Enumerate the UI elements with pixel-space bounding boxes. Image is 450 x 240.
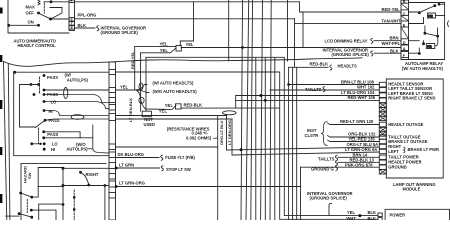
svg-text:RED-LT GRN 130: RED-LT GRN 130	[340, 119, 374, 124]
svg-text:BLK: BLK	[390, 48, 399, 53]
auto dimmer box	[8, 0, 69, 33]
svg-text:GROUND G: GROUND G	[311, 166, 334, 171]
svg-text:WHT 102: WHT 102	[357, 85, 375, 90]
bundle verticals bottom	[255, 58, 257, 220]
svg-text:YEL: YEL	[186, 42, 195, 47]
svg-text:BLK: BLK	[368, 216, 377, 220]
module pins	[379, 82, 386, 174]
wavy page boundary	[4, 58, 363, 67]
svg-text:PNK-ORG 676: PNK-ORG 676	[345, 162, 373, 167]
INST CLSTR brace	[321, 122, 327, 146]
svg-text:WHT: WHT	[346, 216, 356, 220]
svg-text:YEL: YEL	[347, 210, 356, 215]
svg-text:(W/O AUTO HEADLTS): (W/O AUTO HEADLTS)	[153, 89, 198, 94]
brace marks for fuse/stop	[404, 147, 406, 153]
svg-text:FR: FR	[427, 45, 432, 49]
svg-text:8: 8	[71, 26, 73, 30]
RED-BLK resistance wire row	[181, 107, 280, 109]
svg-text:LT GRN: LT GRN	[119, 163, 134, 168]
svg-text:RED-BLK: RED-BLK	[310, 62, 329, 67]
svg-text:E: E	[403, 23, 406, 27]
svg-text:BLK: BLK	[368, 210, 377, 215]
svg-text:0.002 OHMS): 0.002 OHMS)	[186, 136, 212, 141]
svg-text:DK BLU-ORG: DK BLU-ORG	[118, 152, 144, 157]
svg-text:0.248 +/-: 0.248 +/-	[192, 130, 209, 135]
svg-text:HI: HI	[51, 147, 55, 152]
svg-text:PASS: PASS	[47, 92, 58, 97]
group2	[30, 119, 46, 151]
svg-text:ORG-LT BLU: ORG-LT BLU	[219, 121, 224, 145]
svg-text:YEL: YEL	[120, 85, 129, 90]
svg-text:LT BLU-ORG 104: LT BLU-ORG 104	[341, 90, 375, 95]
hazard / turn signal area	[21, 163, 106, 220]
BRN-LT BLU row	[287, 83, 290, 86]
auto dimmer connector strip	[69, 0, 75, 31]
svg-text:LO: LO	[52, 142, 59, 147]
DK BLU-ORG FUSE	[116, 157, 160, 159]
TAILLTS upper brace	[323, 87, 325, 92]
svg-text:A: A	[403, 47, 406, 51]
svg-text:HEADLT CONTROL: HEADLT CONTROL	[18, 43, 57, 48]
svg-text:PASS: PASS	[49, 118, 60, 123]
RED-BLK headlights vertical	[294, 24, 296, 68]
svg-text:BRAKE LT PWR: BRAKE LT PWR	[408, 147, 439, 152]
svg-text:TAILLTS: TAILLTS	[305, 87, 322, 92]
svg-text:STOP LT SW: STOP LT SW	[166, 167, 191, 172]
svg-text:LCD DIMMING RELAY: LCD DIMMING RELAY	[325, 39, 368, 44]
svg-text:OFF: OFF	[26, 10, 35, 15]
svg-text:HI: HI	[49, 109, 53, 114]
pair wires to loop	[44, 102, 109, 109]
svg-text:CLSTR: CLSTR	[305, 133, 319, 138]
right of strip: YEL branch	[116, 89, 137, 91]
autolamp relay strip	[401, 0, 409, 60]
svg-text:RED-YEL: RED-YEL	[130, 51, 135, 69]
pair wires right side going to loop columns	[116, 115, 227, 117]
svg-text:RED-YEL: RED-YEL	[382, 7, 401, 12]
LT GRN STOP LT SW	[116, 167, 160, 169]
svg-text:MAX: MAX	[26, 4, 35, 9]
svg-text:5: 5	[70, 0, 72, 3]
svg-text:FR: FR	[428, 14, 433, 18]
relay internals	[401, 3, 445, 60]
wire C long to power YEL	[145, 57, 147, 110]
switch MAX/OFF/ON	[7, 0, 52, 26]
svg-text:GROUND: GROUND	[388, 165, 406, 170]
svg-text:(W/ AUTO HEADLTS): (W/ AUTO HEADLTS)	[153, 81, 194, 86]
svg-text:RIGHT BRAKE LT SENS: RIGHT BRAKE LT SENS	[388, 95, 435, 100]
svg-text:YEL: YEL	[160, 48, 169, 53]
svg-text:SW: SW	[27, 172, 32, 179]
svg-text:BRN-LT BLU 108: BRN-LT BLU 108	[341, 79, 375, 84]
svg-text:HEADLT OUTAGE: HEADLT OUTAGE	[388, 122, 423, 127]
svg-text:POWER: POWER	[390, 213, 406, 218]
NOT USED	[142, 111, 151, 117]
LT GRN-ORG long	[116, 186, 301, 188]
svg-text:YEL: YEL	[159, 109, 168, 114]
POWER box	[385, 209, 449, 220]
svg-text:YEL: YEL	[165, 103, 174, 108]
svg-text:LT GRN-BLK: LT GRN-BLK	[128, 98, 133, 122]
headlight switch box	[14, 72, 109, 156]
svg-text:FUSE #17 (F/B): FUSE #17 (F/B)	[165, 155, 195, 160]
module wires from braces / verticals	[330, 124, 379, 126]
TAN-WHT jog	[295, 19, 402, 24]
wire pin8 BLK to splice	[75, 27, 96, 29]
svg-text:LT GRN-ORG 9A: LT GRN-ORG 9A	[345, 147, 377, 152]
top wire to RED-YEL	[75, 2, 402, 12]
page edge marks	[0, 8, 3, 204]
svg-text:LT GRN-ORG: LT GRN-ORG	[119, 181, 145, 186]
svg-text:AUTOLPS): AUTOLPS)	[66, 146, 88, 151]
svg-text:ON: ON	[28, 20, 34, 25]
svg-text:D: D	[403, 41, 406, 45]
svg-text:(W/ AUTO HEADLTS): (W/ AUTO HEADLTS)	[402, 66, 443, 71]
svg-text:(GROUND SPLICE): (GROUND SPLICE)	[101, 30, 139, 35]
svg-text:AUTOLPS): AUTOLPS)	[67, 77, 89, 82]
svg-text:B: B	[403, 0, 406, 4]
svg-text:YEL: YEL	[160, 42, 169, 47]
ground splice tick	[329, 203, 332, 215]
svg-text:BRN: BRN	[390, 36, 399, 41]
svg-text:TAILLTS: TAILLTS	[318, 156, 335, 161]
svg-text:(GROUND SPLICE): (GROUND SPLICE)	[332, 52, 370, 57]
svg-text:PASS: PASS	[47, 132, 58, 137]
wire pin6 PPL-ORG	[75, 18, 295, 20]
svg-text:RIGHT: RIGHT	[86, 172, 99, 177]
relay wires	[374, 40, 401, 42]
svg-text:C: C	[403, 12, 406, 16]
main connector strip	[109, 62, 116, 220]
WHT 102 row	[270, 89, 379, 91]
svg-text:PASS: PASS	[47, 75, 58, 80]
top bundle verticals	[228, 0, 230, 61]
svg-text:PPL-ORG: PPL-ORG	[78, 13, 97, 18]
svg-text:LO: LO	[51, 100, 58, 105]
svg-text:LT GRN-ORG: LT GRN-ORG	[227, 120, 232, 145]
svg-text:YEL-RED 135: YEL-RED 135	[349, 136, 376, 141]
svg-text:LEFT: LEFT	[388, 149, 399, 154]
svg-text:WHT-PPL: WHT-PPL	[382, 41, 401, 46]
svg-text:RED-BLK: RED-BLK	[184, 103, 203, 108]
lamp out module box	[386, 79, 443, 178]
svg-text:MODULE: MODULE	[403, 187, 421, 192]
svg-text:TAN-WHT: TAN-WHT	[382, 18, 401, 23]
svg-text:HEADLTS: HEADLTS	[338, 63, 357, 68]
svg-text:BLK: BLK	[78, 23, 87, 28]
YEL corners region	[180, 2, 193, 46]
long YEL / WHT-PPL wire	[181, 47, 401, 49]
switch internals group1	[13, 71, 45, 112]
svg-text:(GROUND SPLICE): (GROUND SPLICE)	[310, 196, 348, 201]
svg-text:RED-WHT 105: RED-WHT 105	[348, 95, 376, 100]
svg-text:USED: USED	[144, 122, 156, 127]
TAILLTS / GROUND braces	[335, 155, 337, 166]
